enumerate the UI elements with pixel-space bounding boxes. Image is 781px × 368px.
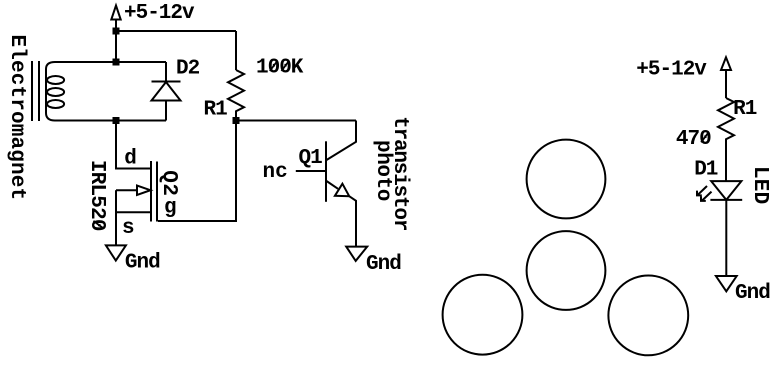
sensor circle middle [527, 231, 606, 310]
sensor circle bottom-right [608, 276, 688, 356]
LED D1 triangle [711, 181, 741, 200]
svg-text:transistor: transistor [388, 116, 411, 231]
electromagnet coil L1 outline [46, 62, 166, 121]
wire R1 node to collector [236, 120, 356, 122]
resistor R1 100K [228, 70, 244, 121]
resistor R1 470 [718, 98, 734, 181]
slash of zero in 470 [701, 132, 709, 142]
wire LED to ground [725, 200, 727, 276]
svg-text:Q1: Q1 [299, 147, 323, 170]
node junction dot coil top [113, 59, 120, 66]
slash of zero 1 in 100K [270, 61, 278, 71]
power symbol arrow +5-12v (right) [721, 57, 731, 70]
svg-text:nc: nc [263, 161, 288, 184]
transistor Q2 channel bar [150, 161, 152, 222]
svg-text:Gnd: Gnd [125, 252, 160, 275]
node junction dot R1 bottom [233, 117, 240, 124]
phototransistor Q1 emitter shaft [327, 181, 339, 189]
diode D2 cathode bar [152, 81, 181, 83]
ground symbol (Q2 source) [106, 245, 126, 260]
svg-text:Q2: Q2 [157, 170, 180, 196]
svg-text:Gnd: Gnd [366, 253, 401, 276]
svg-text:d: d [124, 147, 136, 170]
svg-text:LED: LED [748, 166, 771, 204]
transistor Q2 gate bar [156, 162, 158, 222]
svg-text:100K: 100K [256, 57, 304, 80]
wire down to resistor R1 [235, 31, 237, 70]
wire top rail horizontal [116, 30, 236, 32]
transistor Q2 body arrowhead [137, 186, 151, 196]
svg-text:+5-12v: +5-12v [124, 2, 195, 25]
svg-text:Gnd: Gnd [735, 282, 770, 305]
wire R1 node down to gate [158, 121, 236, 222]
svg-text:s: s [122, 217, 134, 240]
ground symbol (right) [716, 276, 737, 291]
sensor circle bottom-left [443, 275, 523, 355]
sensor circle top [527, 140, 606, 219]
coil loop 2 [47, 88, 64, 96]
transistor Q2 source horizontal [116, 211, 151, 213]
phototransistor Q1 collector wire [327, 121, 357, 161]
svg-text:Electromagnet: Electromagnet [5, 35, 28, 201]
LED light arrow 2 shaft [702, 192, 712, 201]
node junction dot at power rail [113, 28, 120, 35]
svg-text:+5-12v: +5-12v [636, 59, 707, 82]
coil loop 3 [47, 100, 64, 108]
diode D2 triangle [152, 82, 181, 101]
phototransistor Q1 emitter arrowhead [335, 184, 349, 197]
transistor Q2 body arrow shaft [116, 189, 137, 191]
diode D2 anode wire [165, 101, 167, 121]
LED D1 cathode bar [710, 199, 742, 201]
ground symbol (Q1 emitter) [346, 247, 367, 261]
slash of zero 2 in 100K [281, 61, 289, 71]
coil loop 1 [47, 76, 64, 84]
slash of zero in IRL520 (rotated frame) [93, 221, 103, 229]
svg-text:IRL520: IRL520 [85, 160, 108, 231]
node junction dot coil bottom [113, 117, 120, 124]
svg-text:470: 470 [676, 128, 711, 151]
svg-text:R1: R1 [733, 98, 757, 121]
phototransistor Q1 base bar [325, 141, 327, 202]
svg-text:D2: D2 [176, 58, 200, 81]
svg-text:D1: D1 [694, 158, 718, 181]
svg-text:g: g [164, 197, 176, 220]
power symbol arrow +5-12v (left) [111, 6, 120, 20]
electromagnet core line 2 [38, 61, 40, 121]
LED light arrow 1 head [697, 191, 702, 196]
svg-text:R1: R1 [204, 99, 228, 122]
phototransistor Q1 base wire (nc) [296, 170, 326, 172]
diode D2 cathode wire [165, 62, 167, 82]
LED light arrow 1 shaft [698, 186, 707, 195]
transistor Q2 source vertical wire [115, 190, 117, 245]
wire power to R1 right [725, 70, 727, 98]
wire coil bottom to Q2 drain [116, 121, 150, 169]
LED light arrow 2 head [701, 196, 706, 201]
electromagnet core line 1 [31, 61, 33, 121]
phototransistor Q1 emitter wire to ground [349, 196, 356, 246]
wire power vertical to coil top [115, 20, 117, 63]
